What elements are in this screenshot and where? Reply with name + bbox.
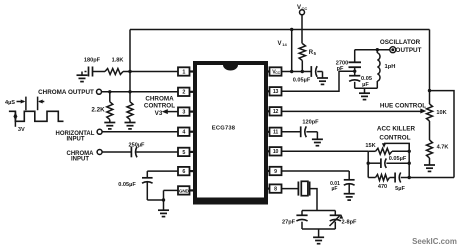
svg-text:CHROMA: CHROMA <box>145 95 174 102</box>
svg-text:180pF: 180pF <box>84 58 101 64</box>
wire horizontal input <box>102 131 178 133</box>
label HORIZONTAL INPUT <box>56 131 95 143</box>
wire left drop <box>129 30 131 102</box>
terminal CHROMA OUTPUT <box>97 89 102 94</box>
svg-text:4: 4 <box>182 130 185 136</box>
wire acc right rail <box>408 143 410 177</box>
chroma control arrow <box>162 109 178 114</box>
pin 11 box <box>268 128 282 136</box>
node junction <box>408 162 411 165</box>
terminal Vcc <box>300 10 305 15</box>
wire crystal to trimmer net <box>310 189 317 211</box>
wire R5 to Vcc pin row <box>301 61 303 72</box>
pin 5 box <box>178 148 193 156</box>
capacitor 0.05µF pin6 <box>118 171 178 188</box>
svg-text:GND: GND <box>179 188 190 193</box>
wire tank bottom <box>355 87 378 89</box>
svg-text:5: 5 <box>182 150 185 156</box>
svg-text:6: 6 <box>182 169 185 175</box>
terminal HORIZONTAL INPUT <box>97 129 102 134</box>
wire acc left rail <box>367 151 369 177</box>
wiper arm 15K <box>382 143 409 151</box>
resistor 1.8K <box>93 58 124 75</box>
svg-text:0.05µF: 0.05µF <box>293 77 311 83</box>
svg-text:CONTROL: CONTROL <box>379 134 410 141</box>
ground <box>306 132 323 146</box>
node junction <box>376 48 379 51</box>
3V amplitude arrow <box>13 112 17 127</box>
capacitor 2700pF <box>336 50 361 76</box>
label 3V <box>18 127 25 133</box>
wire pin12 hue wiper <box>282 109 427 114</box>
pin 13 box <box>268 87 282 95</box>
ground <box>313 229 324 244</box>
svg-text:250µF: 250µF <box>129 142 146 148</box>
svg-text:10K: 10K <box>436 110 446 116</box>
svg-text:13: 13 <box>273 89 279 95</box>
svg-text:1: 1 <box>182 69 185 75</box>
wire to far right rail <box>430 91 455 178</box>
chroma burst waveform <box>9 111 64 121</box>
svg-text:V3: V3 <box>155 110 163 117</box>
svg-text:3: 3 <box>182 110 185 116</box>
node junction <box>408 150 411 153</box>
svg-text:CONTROL: CONTROL <box>144 103 175 110</box>
svg-text:CHROMA OUTPUT: CHROMA OUTPUT <box>38 89 94 96</box>
wire pin13 to tank <box>282 71 355 91</box>
label 15K <box>365 143 375 149</box>
watermark SeekIC.com <box>412 237 457 246</box>
svg-text:µF: µF <box>362 82 369 88</box>
svg-text:INPUT: INPUT <box>67 136 85 142</box>
svg-text:4µS: 4µS <box>5 100 15 106</box>
pin 9 box <box>268 167 282 175</box>
wire chroma output <box>102 91 178 93</box>
svg-text:V: V <box>278 41 282 47</box>
terminal OSCILLATOR OUTPUT <box>390 47 396 53</box>
svg-text:1.8K: 1.8K <box>112 58 124 64</box>
pin 2 box <box>178 88 193 96</box>
wire trimmer top rail <box>302 210 335 212</box>
svg-text:120pF: 120pF <box>302 119 319 125</box>
resistor 470 <box>368 175 389 191</box>
svg-text:0.05µF: 0.05µF <box>118 182 136 188</box>
capacitor 27pF <box>282 211 308 230</box>
pin 3 box <box>178 107 193 115</box>
svg-text:4.7K: 4.7K <box>437 145 449 151</box>
label OSCILLATOR OUTPUT <box>380 39 422 54</box>
svg-text:12: 12 <box>273 109 279 115</box>
svg-text:0.05µF: 0.05µF <box>389 156 407 162</box>
wire right drop <box>429 30 431 105</box>
label 4µS <box>5 100 15 106</box>
ground <box>77 72 88 82</box>
ground <box>424 158 435 171</box>
wire Vcc pin row <box>282 71 312 73</box>
wire to pin 1 <box>123 71 178 73</box>
resistor (bias) <box>127 102 133 120</box>
wire Vcc feed <box>301 15 303 44</box>
node junction <box>290 28 293 31</box>
svg-text:2-8pF: 2-8pF <box>342 219 358 225</box>
label ECG738 <box>212 126 236 132</box>
label V14 <box>278 41 288 47</box>
svg-text:8: 8 <box>274 187 277 193</box>
svg-text:2: 2 <box>182 90 185 96</box>
wire trimmer bottom rail <box>302 228 335 230</box>
svg-text:ACC KILLER: ACC KILLER <box>377 126 416 133</box>
ground <box>125 120 136 129</box>
terminal CHROMA INPUT <box>97 150 102 155</box>
capacitor 120pF <box>282 119 320 137</box>
crystal Y1 <box>282 181 310 195</box>
ground <box>344 184 355 200</box>
capacitor 0.01µF <box>282 171 355 192</box>
trimmer capacitor 2-8pF <box>330 211 358 230</box>
svg-text:5µF: 5µF <box>395 186 405 192</box>
wire pot to 4.7K <box>429 121 431 140</box>
node junction <box>290 70 293 73</box>
wire top rail <box>130 29 430 31</box>
svg-text:2.2K: 2.2K <box>91 106 105 113</box>
wire pin6 cap to gnd node <box>147 182 163 200</box>
pin 1 box <box>178 67 193 75</box>
pin 6 box <box>178 167 193 175</box>
node junction <box>162 198 165 201</box>
node junction <box>301 70 304 73</box>
label HUE CONTROL <box>380 102 426 109</box>
dimension arrow right <box>17 100 26 104</box>
pin 4 box <box>178 128 193 136</box>
svg-text:µF: µF <box>332 186 338 192</box>
wire tank top <box>355 49 391 51</box>
svg-text:14: 14 <box>282 42 287 47</box>
svg-text:470: 470 <box>378 184 387 190</box>
dimension tick right <box>37 97 39 111</box>
svg-text:1pH: 1pH <box>385 64 396 70</box>
svg-text:HUE CONTROL: HUE CONTROL <box>380 102 426 109</box>
ground <box>317 72 328 85</box>
svg-text:10: 10 <box>273 149 279 155</box>
label CHROMA OUTPUT <box>38 89 94 96</box>
label ACC KILLER CONTROL <box>377 126 416 142</box>
node junction <box>128 90 131 93</box>
ground <box>104 120 115 129</box>
inductor 1pH <box>377 50 395 89</box>
svg-text:3V: 3V <box>18 127 25 133</box>
resistor 2.2K <box>91 92 112 120</box>
pin GND box <box>178 186 193 194</box>
dimension tick left <box>25 97 27 111</box>
node junction <box>108 90 111 93</box>
node junction <box>128 70 131 73</box>
pin Vcc(14) box <box>268 67 282 75</box>
capacitor 250µF <box>102 142 145 157</box>
svg-text:CC: CC <box>275 71 280 75</box>
resistor R5 <box>299 44 317 61</box>
pin 8 box <box>268 184 282 192</box>
node junction <box>353 70 356 73</box>
svg-text:11: 11 <box>273 130 278 136</box>
capacitor 0.05µF Vcc <box>293 66 317 83</box>
resistor 4.7K <box>427 140 449 158</box>
svg-text:INPUT: INPUT <box>71 157 89 163</box>
capacitor 0.05µF tank <box>349 76 372 89</box>
ground <box>359 88 370 99</box>
potentiometer 10K <box>427 104 447 121</box>
pin 12 box <box>268 107 282 115</box>
ground <box>158 210 169 216</box>
svg-text:9: 9 <box>274 169 277 175</box>
wire pin10 <box>282 150 369 152</box>
label CHROMA CONTROL V3 <box>144 95 175 117</box>
svg-text:ECG738: ECG738 <box>212 126 236 132</box>
label CHROMA INPUT <box>67 151 95 163</box>
wire acc to right rail <box>401 177 454 179</box>
node junction <box>428 89 431 92</box>
wire to pin 5 <box>136 151 178 153</box>
label Vcc <box>297 5 307 11</box>
pin 10 box <box>268 147 282 155</box>
node junction <box>367 162 370 165</box>
wire gnd pin <box>164 190 179 210</box>
svg-text:pF: pF <box>337 66 344 72</box>
dimension arrow left <box>38 100 44 104</box>
capacitor 5µF <box>390 173 406 193</box>
node junction <box>408 176 411 179</box>
wire V14 line <box>291 30 293 72</box>
op-amp U1 ECG738 body <box>193 61 268 205</box>
svg-text:SeekIC.com: SeekIC.com <box>412 237 457 246</box>
svg-text:OUTPUT: OUTPUT <box>396 47 422 54</box>
svg-text:OSCILLATOR: OSCILLATOR <box>380 39 421 46</box>
svg-text:15K: 15K <box>365 143 375 149</box>
capacitor 180pF <box>84 58 101 77</box>
capacitor 0.05µF acc <box>368 156 409 168</box>
potentiometer 15K <box>368 148 409 154</box>
svg-text:27pF: 27pF <box>282 219 296 225</box>
